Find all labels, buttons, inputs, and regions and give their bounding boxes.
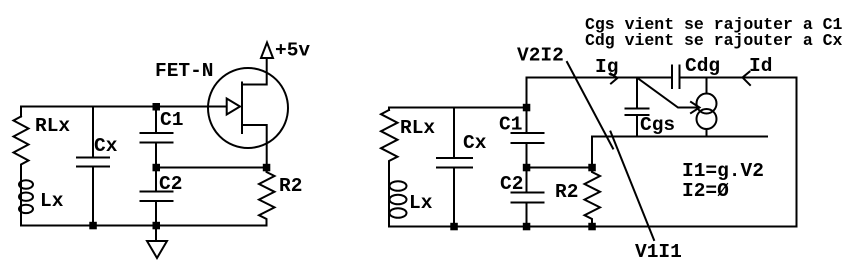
resistor RLx (14, 117, 29, 180)
svg-text:Cdg vient se rajouter a Cx: Cdg vient se rajouter a Cx (585, 31, 843, 50)
dependent source control arrow (638, 78, 697, 108)
wire: top rail / gate wire (21, 106, 227, 108)
svg-text:Cx: Cx (94, 135, 118, 157)
svg-text:Cdg: Cdg (685, 55, 720, 77)
inductor Lx (19, 180, 33, 188)
svg-text:Lx: Lx (40, 190, 64, 212)
svg-text:R2: R2 (279, 175, 302, 197)
svg-text:Cgs: Cgs (640, 114, 675, 136)
capacitor Cx (right) (453, 108, 455, 159)
wire: FET source stub (242, 125, 267, 168)
wire: left rail top lead (20, 107, 22, 117)
svg-text:I2=Ø: I2=Ø (682, 180, 729, 202)
svg-text:I1=g.V2: I1=g.V2 (682, 160, 764, 182)
svg-text:C2: C2 (159, 173, 182, 195)
wire: riser C1 to upper rail (526, 78, 528, 108)
capacitor Cgs (636, 78, 638, 109)
power +5v arrow (261, 43, 273, 59)
wire: FET drain stub (242, 58, 267, 85)
capacitor C1 (right) (526, 108, 528, 134)
capacitor Cdg (671, 66, 673, 89)
svg-text:+5v: +5v (275, 40, 310, 62)
wire: left rail top lead (388, 108, 390, 111)
node: junction dots right (524, 105, 530, 111)
resistor R2 (259, 168, 275, 226)
arrow Id (743, 72, 751, 85)
svg-text:C1: C1 (499, 114, 522, 136)
separatrix diagonal lower (611, 132, 655, 241)
svg-text:R2: R2 (555, 181, 578, 203)
svg-text:C2: C2 (500, 173, 523, 195)
wire: top rail (389, 107, 527, 109)
svg-text:Cx: Cx (463, 132, 487, 154)
capacitor C2 (155, 168, 157, 192)
svg-text:RLx: RLx (400, 117, 435, 139)
transistor FET gate arrow (227, 99, 240, 115)
wire: bottom rail (right) (389, 226, 797, 228)
arrow Ig (611, 74, 618, 84)
transistor FET channel bar (241, 83, 243, 134)
wire: bottom rail (21, 225, 267, 227)
svg-text:RLx: RLx (35, 115, 70, 137)
separatrix diagonal upper (567, 62, 613, 149)
current source I1 (706, 78, 708, 94)
wire: riser to R2 (591, 137, 593, 168)
svg-text:Id: Id (749, 55, 772, 77)
transistor FET circle (208, 68, 288, 148)
wire: right rail (796, 78, 798, 227)
wire: upper rail right of Cdg (680, 77, 797, 79)
svg-text:C1: C1 (160, 109, 183, 131)
ground (155, 226, 157, 242)
wire: upper rail left of Cdg (527, 77, 673, 79)
svg-text:V1I1: V1I1 (635, 241, 682, 263)
svg-text:V2I2: V2I2 (517, 45, 564, 67)
capacitor Cx (92, 107, 94, 158)
resistor RLx (right) (381, 110, 398, 180)
svg-text:Ig: Ig (595, 56, 618, 78)
wire: middle rail (156, 167, 267, 169)
resistor R2 (right) (585, 168, 601, 227)
wire: left rail bottom lead (388, 180, 390, 227)
inductor Lx (right) (390, 181, 407, 191)
svg-text:Lx: Lx (409, 192, 433, 214)
node: junction dots left (154, 104, 160, 110)
capacitor C2 (right) (526, 168, 528, 193)
wire: upper-mid rail (592, 136, 767, 138)
wire: left rail bottom lead (20, 179, 22, 226)
wire: middle rail (right) (527, 167, 593, 169)
capacitor C1 (155, 107, 157, 134)
svg-text:FET-N: FET-N (155, 60, 214, 82)
